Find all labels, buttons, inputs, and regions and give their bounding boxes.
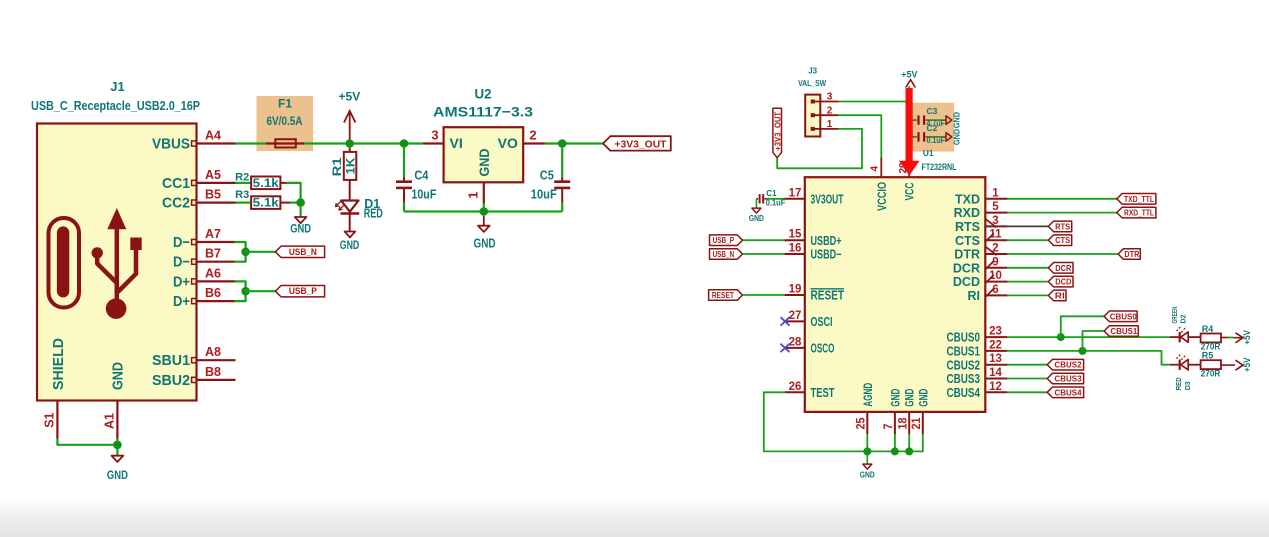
svg-text:3: 3 [431, 127, 438, 142]
U1 pin 18 GND [908, 412, 910, 434]
svg-text:VBUS: VBUS [152, 136, 190, 153]
svg-text:18: 18 [897, 417, 909, 430]
svg-text:10: 10 [989, 270, 1002, 282]
junction gnd rail 1 [863, 447, 871, 455]
svg-text:DTR: DTR [954, 248, 980, 262]
svg-text:CBUS4: CBUS4 [947, 386, 981, 400]
U1 pin 20 VCC stub [908, 158, 910, 177]
junction R2/R3 gnd [296, 198, 305, 207]
global label +3V3_OUT [603, 136, 671, 150]
svg-text:10uF: 10uF [411, 187, 436, 202]
svg-text:+5V: +5V [901, 69, 917, 79]
U1 pin 15 USBD+ [784, 239, 805, 241]
svg-text:CBUS1: CBUS1 [947, 345, 981, 359]
wire TEST to gnd rail [764, 391, 785, 393]
U2 pin 2 VO [523, 142, 545, 144]
fuse F1 body [266, 142, 304, 144]
wire C4 to U2 gnd to C5 [404, 210, 562, 212]
svg-text:RED: RED [364, 207, 383, 221]
svg-text:DCD: DCD [1055, 277, 1071, 287]
svg-text:+3V3_OUT: +3V3_OUT [773, 112, 782, 151]
svg-text:VCC: VCC [905, 183, 917, 201]
J1 pin B5 CC2 [197, 202, 236, 204]
svg-text:GND: GND [290, 222, 311, 236]
svg-text:R5: R5 [1202, 351, 1214, 361]
svg-text:VCCIO: VCCIO [877, 182, 889, 211]
global label DTR [1118, 249, 1140, 260]
junction gnd rail 2 [891, 447, 899, 455]
capacitor C3 [909, 119, 917, 121]
U1 pin 1 TXD [985, 198, 1007, 200]
global label CBUS2 [1047, 359, 1083, 370]
svg-text:RI: RI [1055, 290, 1065, 300]
pin decorations [986, 219, 997, 227]
svg-text:12: 12 [989, 381, 1002, 393]
svg-text:CTS: CTS [1055, 235, 1070, 245]
global label RXD_TTL [1117, 207, 1156, 218]
svg-text:CBUS2: CBUS2 [947, 358, 981, 372]
U1 pin 27 OSCI [784, 320, 805, 322]
svg-text:USBD−: USBD− [811, 248, 842, 262]
svg-text:GND: GND [109, 362, 126, 390]
U1 pin 14 CBUS3 [985, 378, 1007, 380]
global label RESET [709, 290, 743, 301]
svg-text:RTS: RTS [1055, 221, 1070, 231]
svg-text:3: 3 [827, 92, 833, 103]
svg-text:C3: C3 [927, 106, 938, 116]
RESET overline [811, 288, 845, 290]
J1 pin A4 VBUS [197, 142, 236, 144]
svg-text:+5V: +5V [1242, 330, 1252, 345]
U2 pin 3 VI [423, 142, 444, 144]
svg-text:F1: F1 [278, 97, 292, 111]
U1 pin 28 OSCO [784, 347, 805, 349]
svg-text:CBUS3: CBUS3 [1055, 374, 1082, 384]
svg-text:SHIELD: SHIELD [50, 338, 67, 390]
U1 pin 13 CBUS2 [985, 364, 1007, 366]
power symbol +5V at R5 [1236, 360, 1243, 370]
resistor R4 [1201, 334, 1221, 343]
highlight box around F1 [257, 96, 314, 151]
U1 pin 11 CTS [985, 239, 1007, 241]
capacitor C4 [403, 148, 405, 178]
highlight box around C2 C3 [912, 103, 955, 152]
svg-text:D−: D− [173, 234, 190, 251]
svg-text:A6: A6 [205, 266, 221, 280]
svg-text:C4: C4 [414, 167, 429, 182]
ground symbol C2 [946, 133, 952, 142]
junction CBUS0 [1057, 333, 1065, 341]
no-connect OSCO [781, 344, 790, 352]
svg-text:OSCI: OSCI [811, 315, 833, 329]
bottom gray bar [0, 498, 1269, 537]
svg-text:3V3OUT: 3V3OUT [811, 192, 844, 206]
svg-text:VO: VO [498, 135, 518, 151]
U1 pin 9 DCR [985, 267, 1007, 269]
svg-text:AGND: AGND [863, 383, 875, 407]
svg-text:CBUS0: CBUS0 [947, 331, 981, 345]
svg-text:GND: GND [860, 470, 875, 480]
svg-text:RXD_TTL: RXD_TTL [1124, 208, 1154, 218]
svg-text:5: 5 [992, 201, 999, 213]
svg-text:J3: J3 [808, 66, 817, 75]
wire to USB_N label [246, 251, 276, 253]
ground symbol U1 [866, 455, 868, 464]
ground symbol C3 [946, 116, 952, 125]
svg-text:SBU1: SBU1 [152, 352, 190, 369]
svg-text:GND: GND [905, 389, 917, 407]
svg-text:RI: RI [968, 289, 981, 303]
wire RI [1007, 294, 1048, 296]
USB logo pill [49, 218, 80, 308]
svg-text:USB_C_Receptacle_USB2.0_16P: USB_C_Receptacle_USB2.0_16P [31, 98, 200, 113]
svg-text:22: 22 [989, 339, 1002, 351]
U1 pin 21 GND [922, 412, 924, 434]
J1 pin A5 CC1 [197, 182, 236, 184]
J3 pin 3 [811, 100, 815, 104]
J3 pin 2 [811, 113, 815, 117]
wire A7 B7 tie [236, 242, 246, 262]
wire CBUS0 [1007, 336, 1170, 338]
wire TXD [1007, 198, 1116, 200]
svg-text:5.1k: 5.1k [253, 178, 280, 190]
svg-text:TEST: TEST [811, 386, 835, 400]
wire CBUS2 [1007, 364, 1047, 366]
resistor R5 [1201, 360, 1221, 369]
wire DCD [1007, 281, 1048, 283]
svg-text:TXD: TXD [955, 192, 980, 206]
U1 pin 6 RI [985, 294, 1007, 296]
svg-text:26: 26 [789, 381, 802, 393]
U1 pin 19 RESET [784, 294, 805, 296]
J3 pin 1 [811, 127, 815, 131]
svg-text:CC1: CC1 [162, 175, 190, 192]
wire VBUS to fuse [236, 142, 267, 144]
svg-text:USB_P: USB_P [289, 286, 318, 297]
svg-text:1: 1 [466, 191, 481, 198]
svg-text:GND: GND [918, 389, 930, 407]
svg-text:+5V: +5V [339, 89, 361, 103]
connector J1 body [37, 124, 197, 401]
U1 pin 3 RTS [985, 225, 1007, 227]
connector J3 body [805, 95, 820, 137]
global label USB_N [710, 249, 743, 260]
svg-text:B5: B5 [205, 188, 221, 202]
svg-text:C5: C5 [540, 167, 554, 182]
wire fuse to +5V junction and C4 [304, 142, 423, 144]
svg-text:+3V3_OUT: +3V3_OUT [615, 139, 668, 151]
svg-text:RESET: RESET [712, 290, 735, 300]
junction at A1 gnd [113, 441, 122, 450]
wire DTR [1007, 253, 1118, 255]
U1 pin 4 VCCIO stub [880, 158, 882, 177]
global label TXD_TTL [1117, 194, 1156, 205]
svg-text:B6: B6 [205, 286, 221, 300]
wire RTS [1007, 225, 1048, 227]
svg-text:R3: R3 [235, 189, 249, 201]
svg-text:R1: R1 [330, 157, 344, 176]
junction gnd rail 3 [905, 447, 913, 455]
wire J3 pin1 to +3V3_OUT [777, 129, 862, 168]
svg-text:DCR: DCR [1055, 263, 1071, 273]
svg-text:RTS: RTS [955, 220, 980, 234]
J1 pin B6 D+ [197, 300, 236, 302]
resistor R1 [349, 148, 351, 152]
svg-text:A4: A4 [205, 129, 221, 143]
capacitor C5 [561, 148, 563, 178]
svg-text:15: 15 [789, 229, 802, 241]
svg-text:2: 2 [529, 127, 536, 142]
svg-text:R4: R4 [1202, 324, 1214, 334]
svg-text:U2: U2 [475, 87, 492, 102]
global label +3V3_OUT vertical [773, 108, 782, 157]
svg-text:GND: GND [953, 129, 962, 146]
svg-text:TXD_TTL: TXD_TTL [1124, 194, 1154, 204]
svg-text:U1: U1 [923, 148, 934, 158]
svg-text:RESET: RESET [811, 289, 845, 303]
svg-text:VI: VI [450, 135, 463, 151]
svg-text:6V/0.5A: 6V/0.5A [267, 116, 303, 128]
J1 pin A1 GND [116, 400, 118, 439]
svg-text:USB_P: USB_P [713, 235, 735, 245]
svg-text:1K: 1K [343, 157, 357, 174]
U1 pin 10 DCD [985, 281, 1007, 283]
U1 pin 25 AGND [866, 412, 868, 434]
LED D2 [1170, 336, 1179, 338]
svg-text:GND: GND [107, 468, 128, 482]
wire CBUS1 [1007, 351, 1170, 365]
svg-text:DCD: DCD [953, 275, 980, 289]
svg-text:CBUS2: CBUS2 [1055, 360, 1082, 370]
wire DCR [1007, 267, 1048, 269]
J1 pin B8 SBU2 [197, 379, 236, 381]
svg-text:CBUS3: CBUS3 [947, 372, 981, 386]
svg-text:RED: RED [1174, 377, 1183, 390]
svg-text:270R: 270R [1201, 368, 1221, 378]
svg-text:GND: GND [953, 112, 962, 129]
junction U2 gnd [480, 207, 489, 216]
svg-text:S1: S1 [43, 412, 57, 427]
J1 pin B7 D− [197, 261, 236, 263]
ground symbol under R2 R3 [300, 207, 302, 217]
svg-text:D3: D3 [1183, 381, 1192, 390]
wire U2 out to label [545, 142, 603, 144]
global label RI [1048, 290, 1066, 301]
svg-text:D2: D2 [1179, 315, 1188, 324]
wire CC2 to R3 [236, 202, 252, 204]
wire RXD [1007, 212, 1116, 214]
junction +5V / R1 [345, 139, 354, 148]
global label CBUS0 [1104, 311, 1137, 322]
wire J3 pin3 to +5V [839, 101, 909, 103]
svg-text:CTS: CTS [955, 234, 980, 248]
svg-text:13: 13 [989, 353, 1002, 365]
svg-text:1: 1 [827, 119, 833, 130]
ground symbol under J1 [116, 448, 118, 456]
LED D3 [1170, 364, 1179, 366]
USB logo trident [107, 208, 126, 229]
junction C5 [558, 139, 567, 148]
J1 pin A6 D+ [197, 280, 236, 282]
svg-text:7: 7 [883, 424, 895, 430]
svg-text:21: 21 [911, 417, 923, 430]
U1 pin 26 TEST [784, 391, 805, 393]
U1 pin 23 CBUS0 [985, 336, 1007, 338]
svg-text:27: 27 [789, 310, 802, 322]
svg-text:USB_N: USB_N [289, 247, 317, 258]
junction USB_N tap [241, 248, 250, 257]
svg-text:C1: C1 [766, 189, 777, 198]
svg-text:GND: GND [890, 389, 902, 407]
global label USB_P [275, 286, 324, 297]
svg-text:1: 1 [992, 187, 999, 199]
svg-text:5.1k: 5.1k [253, 198, 280, 210]
svg-text:FT232RNL: FT232RNL [922, 162, 957, 172]
global label USB_N [275, 246, 324, 257]
svg-text:USBD+: USBD+ [811, 234, 842, 248]
C1 capacitor [767, 198, 785, 200]
U1 pin 2 DTR [985, 253, 1007, 255]
global label CTS [1048, 235, 1071, 246]
svg-text:RXD: RXD [954, 206, 980, 220]
svg-text:A8: A8 [205, 345, 221, 359]
svg-text:GND: GND [476, 149, 492, 177]
J1 pin A7 D− [197, 241, 236, 243]
U1 pin 17 3V3OUT [784, 198, 805, 200]
svg-text:VAL_SW: VAL_SW [798, 79, 826, 88]
svg-text:GREEN: GREEN [1170, 307, 1179, 324]
ground symbol under D1 [349, 214, 351, 232]
svg-text:A1: A1 [103, 413, 117, 429]
svg-text:D+: D+ [173, 293, 190, 310]
svg-text:CBUS4: CBUS4 [1055, 387, 1082, 397]
svg-text:C2: C2 [927, 123, 938, 133]
svg-text:4: 4 [870, 166, 881, 172]
junction C4 [400, 139, 409, 148]
global label CBUS4 [1047, 387, 1083, 398]
junction USB_P tap [241, 287, 250, 296]
LED D1 [341, 201, 358, 212]
wire R2 to gnd junction [287, 183, 301, 198]
svg-text:CC2: CC2 [162, 195, 190, 212]
wire J3 pin2 to VCCIO [839, 115, 881, 158]
svg-text:B7: B7 [205, 247, 221, 261]
svg-text:A7: A7 [205, 227, 221, 241]
svg-text:SBU2: SBU2 [152, 372, 190, 389]
wire CC1 to R2 [236, 182, 252, 184]
no-connect OSCI [781, 317, 790, 325]
power symbol +5V at R4 [1234, 337, 1243, 339]
svg-text:0.1uF: 0.1uF [927, 135, 946, 145]
svg-text:23: 23 [989, 326, 1002, 338]
svg-text:DTR: DTR [1124, 249, 1139, 259]
J1 pin S1 SHIELD [56, 400, 58, 439]
U1 pin 5 RXD [985, 212, 1007, 214]
ground symbol under U2 [483, 216, 485, 226]
svg-text:25: 25 [856, 417, 868, 430]
wire CBUS3 [1007, 378, 1047, 380]
svg-text:GND: GND [474, 237, 496, 251]
global label DCD [1048, 276, 1073, 287]
capacitor C2 [909, 136, 917, 138]
svg-text:OSCO: OSCO [811, 342, 835, 356]
svg-text:19: 19 [789, 284, 802, 296]
svg-text:D+: D+ [173, 273, 190, 290]
svg-text:B8: B8 [205, 365, 221, 379]
junction CBUS1 [1079, 347, 1087, 355]
U1 pin 16 USBD− [784, 253, 805, 255]
J1 pin A8 SBU1 [197, 359, 236, 361]
global label USB_P [710, 235, 743, 246]
ic U1 body [805, 177, 986, 412]
svg-text:+5V: +5V [1242, 358, 1252, 373]
svg-text:2: 2 [827, 105, 833, 116]
global label RTS [1048, 221, 1071, 232]
annotation arrow at VCC [906, 88, 913, 161]
wire CTS [1007, 239, 1048, 241]
U1 pin 22 CBUS1 [985, 350, 1007, 352]
svg-text:A5: A5 [205, 168, 221, 182]
svg-text:GND: GND [340, 238, 360, 252]
global label CBUS1 [1104, 326, 1138, 337]
wire S1 to A1 gnd [57, 439, 117, 444]
svg-text:17: 17 [789, 187, 802, 199]
svg-text:CBUS0: CBUS0 [1110, 311, 1137, 321]
svg-text:GND: GND [749, 213, 764, 223]
wire CBUS4 [1007, 391, 1047, 393]
ground symbol C1 [755, 199, 757, 208]
U1 pin 7 GND [894, 412, 896, 434]
svg-text:10uF: 10uF [531, 187, 557, 202]
wire A6 B6 tie [236, 281, 246, 301]
svg-text:D−: D− [173, 254, 190, 271]
svg-text:AMS1117−3.3: AMS1117−3.3 [433, 104, 533, 120]
U2 pin 1 [483, 182, 485, 203]
svg-text:16: 16 [789, 243, 802, 255]
svg-text:R2: R2 [235, 171, 249, 183]
regulator U2 body [444, 127, 524, 182]
svg-text:CBUS1: CBUS1 [1110, 326, 1137, 336]
svg-text:USB_N: USB_N [713, 249, 735, 259]
wire to USB_P label [246, 290, 276, 292]
svg-text:0.1uF: 0.1uF [766, 198, 786, 207]
svg-text:DCR: DCR [953, 261, 980, 275]
global label CBUS3 [1047, 373, 1083, 384]
U1 pin 12 CBUS4 [985, 391, 1007, 393]
svg-text:28: 28 [789, 336, 802, 348]
svg-text:14: 14 [989, 367, 1002, 379]
svg-text:J1: J1 [110, 79, 124, 94]
global label DCR [1048, 263, 1073, 274]
